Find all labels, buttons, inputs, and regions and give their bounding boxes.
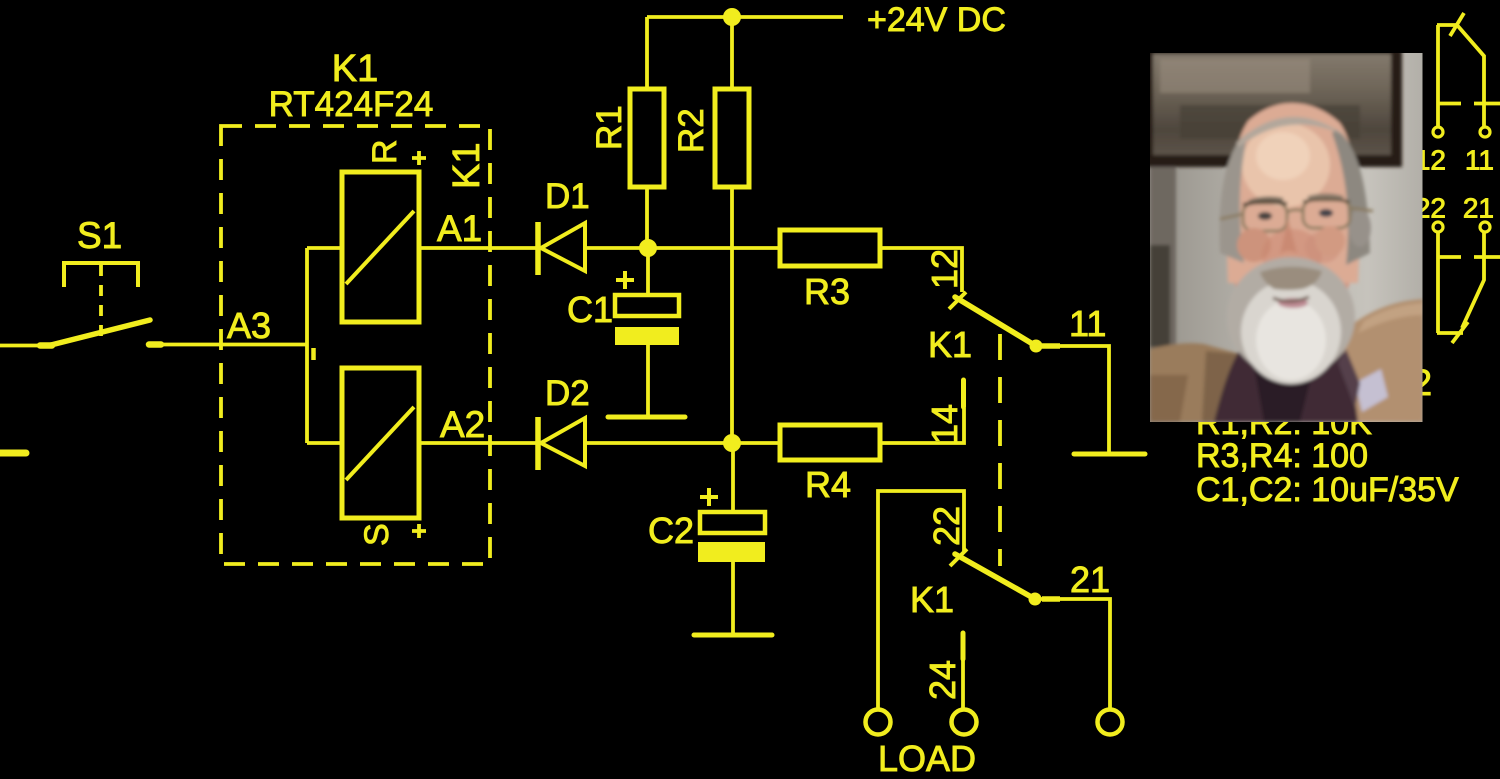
node A (639, 239, 657, 257)
S1 lever (51, 320, 150, 345)
resistor R1 (630, 89, 664, 187)
svg-text:K1: K1 (446, 143, 488, 189)
svg-text:C2: C2 (648, 510, 694, 551)
resistor R2 (715, 89, 749, 187)
terminal mini 21 (1480, 222, 1490, 232)
wire +24V rail (647, 15, 843, 19)
svg-text:C1: C1 (567, 289, 613, 330)
hair (1219, 133, 1248, 263)
svg-text:11: 11 (1069, 303, 1106, 344)
svg-text:14: 14 (924, 404, 965, 444)
svg-text:R4: R4 (805, 464, 851, 505)
svg-text:K1: K1 (928, 324, 972, 365)
resistor R3 (780, 230, 880, 266)
terminal stub 14 (961, 380, 966, 407)
S1 button cap (64, 263, 138, 287)
tick mini top (1450, 13, 1464, 36)
terminal bar 11 (1074, 452, 1145, 457)
tick mini row1 left (1438, 102, 1461, 106)
wire stub lower-left (0, 450, 26, 457)
svg-text:22: 22 (926, 506, 967, 546)
svg-text:C1,C2: 10uF/35V: C1,C2: 10uF/35V (1196, 471, 1459, 509)
svg-text:21: 21 (1070, 559, 1110, 600)
wire 24 down (961, 659, 965, 708)
eyes (1258, 212, 1272, 220)
terminal circle right (1098, 710, 1123, 735)
glasses (1220, 200, 1373, 231)
wire D2 to node (585, 441, 780, 445)
tick mini row1 right (1474, 102, 1500, 106)
label minus (311, 348, 316, 360)
terminal circle mid (952, 710, 977, 735)
wire S1 left (0, 344, 44, 348)
nose (1279, 218, 1298, 268)
ground C2 (694, 633, 772, 638)
capacitor C1 (615, 248, 679, 416)
eyebrows (1249, 198, 1283, 202)
terminal stub 24 (961, 633, 966, 659)
label plus R (412, 151, 426, 165)
svg-text:11: 11 (1465, 145, 1494, 176)
svg-text:K1: K1 (332, 48, 378, 90)
tick mini bottom (1452, 322, 1468, 343)
relay K1 coil block dashed box (221, 126, 490, 564)
svg-text:A2: A2 (440, 404, 485, 445)
wire R2 top (730, 17, 734, 89)
contact pivot dot 1 (1030, 340, 1043, 353)
svg-text:+24V DC: +24V DC (867, 1, 1006, 39)
svg-text:R1: R1 (590, 105, 629, 150)
wire mini top (1437, 25, 1484, 127)
wire D1 to node (585, 246, 780, 250)
shirt (1214, 329, 1358, 422)
label plus S (412, 524, 426, 538)
diode D1 (538, 222, 585, 275)
contact tick 12 (949, 292, 966, 309)
wire A3 (150, 343, 307, 347)
wire mini bottom left vertical (1436, 232, 1440, 333)
terminal circle left (866, 710, 891, 735)
relay coil S (342, 368, 419, 518)
svg-text:12: 12 (924, 249, 965, 289)
wire coil S stub (307, 441, 342, 445)
diode D2 (538, 417, 585, 470)
jacket right shoulder (1322, 299, 1423, 422)
terminal mini 22 (1433, 222, 1443, 232)
wire R4 right (880, 408, 964, 443)
neck and head (1230, 157, 1354, 341)
svg-text:D1: D1 (545, 177, 590, 216)
coil S diagonal (346, 407, 414, 480)
wall objects left (1150, 167, 1176, 352)
svg-text:D2: D2 (545, 374, 590, 413)
wire mini bottom (1437, 232, 1484, 333)
svg-text:24: 24 (922, 660, 963, 700)
contact tick 22 (950, 549, 967, 566)
wire 21 (1041, 599, 1110, 708)
wire R2 bottom (730, 187, 734, 443)
S1 right contact cap (149, 341, 161, 348)
photo inset (1140, 45, 1423, 422)
wire A2 (419, 441, 536, 445)
svg-text:S1: S1 (77, 215, 122, 256)
svg-text:R3,R4: 100: R3,R4: 100 (1196, 437, 1368, 475)
svg-text:K1: K1 (910, 579, 954, 620)
wire 11 stub thick (1042, 343, 1060, 349)
capacitor C2 (698, 443, 765, 633)
wire 21 stub thick (1042, 596, 1060, 602)
svg-text:21: 21 (1463, 193, 1494, 224)
svg-text:A3: A3 (227, 305, 271, 346)
tick mini row2 left (1438, 255, 1461, 259)
svg-text:LOAD: LOAD (878, 738, 976, 779)
wire R1 bottom (645, 187, 649, 248)
contact pivot dot 2 (1029, 593, 1042, 606)
S1 actuator dashed stem (99, 265, 103, 338)
S1 left contact cap (40, 342, 52, 349)
svg-text:A1: A1 (437, 208, 482, 249)
contact lever 22-21 (955, 554, 1035, 599)
node B (723, 434, 741, 452)
framed picture (1140, 45, 1402, 167)
switch S1 (40, 215, 161, 346)
svg-text:R2: R2 (672, 108, 711, 153)
svg-text:RT424F24: RT424F24 (269, 85, 434, 124)
svg-text:R3: R3 (804, 271, 850, 312)
relay contact K1 set 2 (910, 506, 1042, 700)
mustache (1260, 267, 1322, 290)
wire coil bus vertical (305, 248, 309, 443)
mini contact diagram top right (1415, 13, 1500, 343)
wire contact2 top (878, 491, 964, 708)
wire A1 (419, 246, 536, 250)
cheeks (1237, 228, 1271, 262)
coil R diagonal (346, 211, 414, 284)
wire R3 right (880, 248, 962, 292)
svg-text:S: S (358, 523, 396, 546)
mechanical link dashed (998, 334, 1002, 566)
tick mini row2 right (1474, 255, 1500, 259)
wire mini left vertical (1436, 25, 1440, 127)
wire R1 top (645, 17, 649, 89)
relay coil R (342, 172, 419, 322)
wire 11 (1041, 346, 1109, 452)
terminal mini 11 (1480, 127, 1490, 137)
wire coil R stub (307, 246, 342, 250)
resistor R4 (780, 425, 880, 460)
ground C1 (608, 415, 685, 420)
jacket left shoulder (1150, 343, 1240, 422)
svg-text:R: R (366, 139, 404, 164)
mouth (1278, 298, 1308, 308)
relay contact K1 set 1 (924, 249, 1043, 444)
value list (1196, 404, 1459, 509)
node +24V junction (723, 8, 741, 26)
beard (1227, 257, 1355, 377)
terminal mini 12 (1433, 127, 1443, 137)
contact lever 12-11 (955, 297, 1036, 346)
